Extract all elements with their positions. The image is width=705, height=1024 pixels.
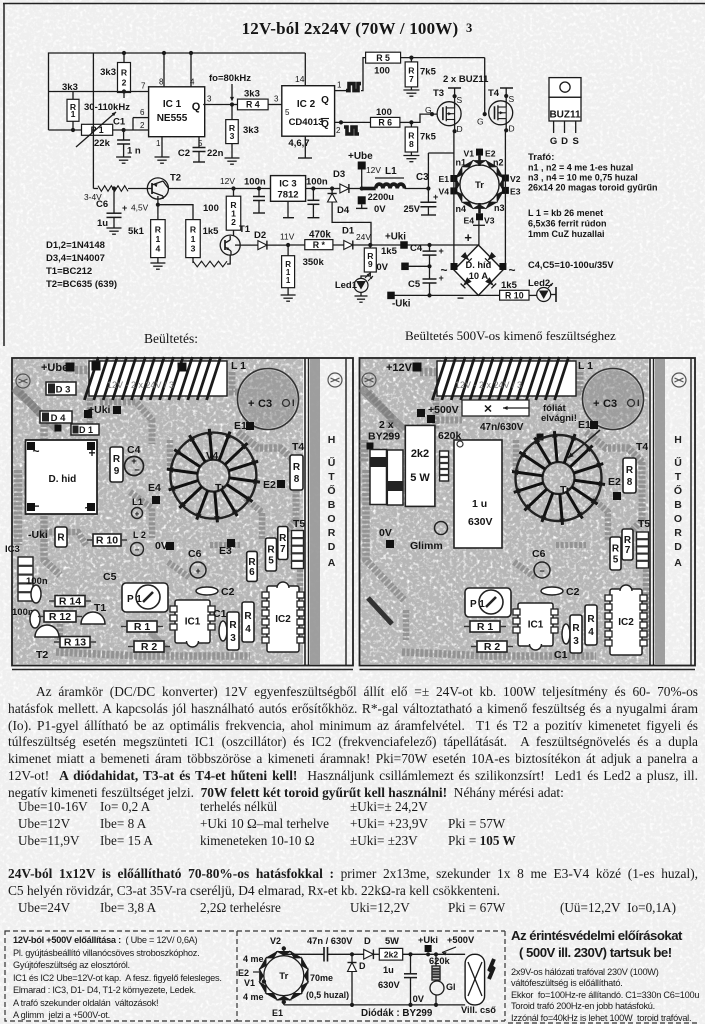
svg-text:100: 100 bbox=[376, 107, 392, 118]
capacitor C3 right board bbox=[583, 369, 644, 430]
resistor 2k2 5W right board bbox=[405, 425, 435, 506]
svg-text:5: 5 bbox=[268, 556, 274, 567]
svg-text:C4,C5=10-100u/35V: C4,C5=10-100u/35V bbox=[528, 260, 614, 270]
svg-text:Vill. cső: Vill. cső bbox=[461, 1005, 496, 1015]
svg-text:1: 1 bbox=[156, 139, 161, 148]
svg-text:IC3: IC3 bbox=[5, 544, 20, 555]
svg-text:2 x BUZ11: 2 x BUZ11 bbox=[443, 74, 489, 85]
svg-text:R 14: R 14 bbox=[59, 596, 81, 608]
svg-text:2: 2 bbox=[231, 217, 236, 227]
svg-text:R: R bbox=[293, 462, 301, 473]
capacitor 47n 630V small schematic bbox=[307, 936, 353, 962]
wire -Uki rail bbox=[387, 292, 499, 310]
svg-text:n1: n1 bbox=[455, 158, 466, 168]
capacitor C2 right board bbox=[541, 586, 580, 598]
wire top supply rail bbox=[49, 53, 306, 130]
capacitor C1 right board bbox=[554, 624, 570, 661]
transistor T1 bbox=[220, 224, 251, 255]
svg-text:−: − bbox=[134, 465, 140, 476]
svg-text:Q: Q bbox=[321, 95, 329, 106]
wire IC1 pin8 pin4 to rail bbox=[164, 53, 191, 87]
svg-text:R 6: R 6 bbox=[378, 118, 392, 128]
svg-text:IC 1: IC 1 bbox=[163, 99, 182, 110]
ground under R14 bbox=[150, 263, 165, 269]
svg-text:4 me: 4 me bbox=[243, 954, 264, 964]
svg-text:n3: n3 bbox=[494, 203, 505, 213]
svg-text:C1: C1 bbox=[113, 117, 126, 128]
svg-text:R: R bbox=[244, 611, 252, 622]
svg-text:7: 7 bbox=[141, 82, 146, 91]
svg-text:L 2: L 2 bbox=[133, 530, 146, 540]
svg-text:30-110kHz: 30-110kHz bbox=[84, 102, 130, 113]
svg-text:8: 8 bbox=[159, 78, 164, 87]
PCB left dark corner trace bbox=[14, 388, 170, 652]
node +12V pads right board bbox=[367, 361, 544, 450]
svg-text:12V: 12V bbox=[220, 176, 235, 186]
wire T4 drain to bridge right bbox=[504, 130, 506, 266]
wire IC1 pin3 output bbox=[203, 95, 237, 107]
svg-text:1k5: 1k5 bbox=[381, 246, 398, 257]
svg-text:9: 9 bbox=[368, 259, 373, 269]
capacitor C6 1u bbox=[96, 186, 127, 229]
svg-text:D: D bbox=[359, 961, 366, 971]
node transformer terminals V1 E2 E1 V2 V4 E3 E4 V3 bbox=[438, 149, 520, 226]
svg-text:R 10: R 10 bbox=[96, 535, 118, 547]
svg-text:70me: 70me bbox=[310, 973, 333, 983]
svg-text:R: R bbox=[190, 224, 197, 234]
capacitor C5 bbox=[408, 273, 444, 295]
wire 12V rail with hand squiggle bbox=[84, 186, 147, 202]
svg-text:47n / 630V: 47n / 630V bbox=[307, 936, 353, 946]
svg-text:R: R bbox=[572, 623, 580, 634]
node E2 pad near T4 left board bbox=[0, 0, 1, 1]
svg-text:T5: T5 bbox=[293, 518, 305, 530]
svg-text:+500V: +500V bbox=[447, 935, 475, 945]
svg-text:0V: 0V bbox=[155, 540, 168, 552]
node 0V pad right board bbox=[379, 527, 394, 548]
svg-text:T: T bbox=[675, 471, 682, 483]
svg-text:4,6,7: 4,6,7 bbox=[288, 138, 309, 149]
svg-text:Ő: Ő bbox=[674, 484, 682, 497]
PCB left corner screws bbox=[16, 373, 342, 388]
lamp glimm small schematic bbox=[430, 980, 456, 1005]
svg-text:Q: Q bbox=[321, 119, 329, 130]
svg-text:12V - 2 x 24V / 3: 12V - 2 x 24V / 3 bbox=[107, 380, 174, 390]
wire feed to transformer column bbox=[426, 153, 454, 202]
svg-text:C4: C4 bbox=[127, 444, 141, 456]
svg-text:IC2: IC2 bbox=[618, 617, 634, 628]
svg-text:Beültetés:: Beültetés: bbox=[144, 331, 198, 346]
resistor R6 bbox=[371, 107, 400, 128]
resistor R3 bbox=[226, 105, 259, 159]
label Beultetes headings bbox=[144, 328, 616, 346]
svg-text:+: + bbox=[122, 203, 127, 213]
svg-text:Tr: Tr bbox=[560, 484, 570, 496]
svg-text:BUZ11: BUZ11 bbox=[549, 110, 581, 121]
svg-text:630V: 630V bbox=[378, 980, 401, 990]
svg-text:n2: n2 bbox=[493, 158, 504, 168]
svg-text:100n: 100n bbox=[306, 177, 328, 188]
svg-text:R 5: R 5 bbox=[376, 53, 390, 63]
svg-text:E1: E1 bbox=[234, 420, 247, 432]
svg-text:D 4: D 4 bbox=[51, 413, 67, 424]
svg-text:✕: ✕ bbox=[483, 404, 492, 416]
svg-text:7: 7 bbox=[625, 545, 631, 556]
svg-text:E1: E1 bbox=[272, 1008, 283, 1018]
node E1 E2 pads right board bbox=[578, 419, 621, 500]
svg-text:6,5x36 ferrit rúdon: 6,5x36 ferrit rúdon bbox=[528, 219, 607, 229]
svg-text:7: 7 bbox=[280, 544, 286, 555]
svg-text:D2: D2 bbox=[254, 230, 266, 241]
capacitor C3 left board bbox=[238, 369, 299, 430]
svg-text:6: 6 bbox=[249, 567, 255, 578]
capacitor C6 left board bbox=[188, 548, 206, 578]
resistor R13 left board bbox=[54, 637, 96, 649]
op-amp U1: timer IC1 NE555 bbox=[149, 78, 205, 149]
svg-text:C1: C1 bbox=[213, 608, 227, 620]
label 2 x BUZ11 bbox=[443, 74, 489, 85]
svg-text:G: G bbox=[477, 117, 484, 127]
svg-text:R: R bbox=[57, 533, 65, 544]
svg-text:R: R bbox=[328, 527, 336, 539]
svg-text:+: + bbox=[464, 230, 472, 245]
svg-text:3: 3 bbox=[230, 131, 235, 141]
svg-text:E1: E1 bbox=[578, 419, 591, 431]
svg-text:D4: D4 bbox=[337, 205, 350, 216]
svg-text:2200u: 2200u bbox=[368, 192, 395, 202]
ground under R3 bbox=[225, 158, 240, 164]
svg-text:2k2: 2k2 bbox=[384, 949, 398, 959]
svg-text:A: A bbox=[674, 557, 682, 569]
capacitor C6 right board bbox=[532, 548, 550, 578]
inductor L2 markers left board bbox=[131, 497, 146, 556]
transistor T1 left board bbox=[81, 602, 106, 624]
svg-text:L1: L1 bbox=[385, 166, 397, 177]
lightning symbol small schematic bbox=[489, 959, 494, 979]
resistor R10 bbox=[500, 280, 537, 300]
label C4 C5 data bbox=[528, 260, 614, 270]
svg-text:D3,4=1N4007: D3,4=1N4007 bbox=[46, 253, 105, 264]
resistor 2k2 5W small schematic bbox=[379, 936, 402, 960]
svg-text:CD4013: CD4013 bbox=[289, 117, 324, 128]
bottom boxes dashed borders bbox=[5, 931, 700, 1023]
svg-text:L 1 = kb 26 menet: L 1 = kb 26 menet bbox=[528, 208, 603, 218]
svg-text:12V-ból 2x24V (70W / 100W): 12V-ból 2x24V (70W / 100W) bbox=[242, 19, 459, 38]
svg-text:+: + bbox=[248, 398, 254, 410]
svg-text:Led2: Led2 bbox=[528, 278, 550, 289]
resistor R12 left board bbox=[38, 611, 82, 623]
svg-text:0V: 0V bbox=[376, 262, 388, 273]
svg-text:+: + bbox=[195, 566, 200, 576]
svg-text:R: R bbox=[113, 454, 121, 465]
resistor 620k small schematic bbox=[429, 954, 451, 980]
svg-text:Glimm: Glimm bbox=[410, 540, 443, 552]
svg-text:D: D bbox=[328, 541, 336, 553]
svg-text:7k5: 7k5 bbox=[420, 67, 437, 78]
svg-text:D: D bbox=[509, 124, 515, 134]
svg-text:1: 1 bbox=[156, 234, 161, 244]
node +Uki terminal small schematic bbox=[418, 935, 438, 952]
svg-text:3: 3 bbox=[207, 95, 212, 104]
svg-text:B: B bbox=[674, 499, 682, 511]
resistor R4 right board bbox=[585, 605, 597, 645]
svg-text:+: + bbox=[135, 510, 140, 519]
component IC2 DIP left board bbox=[262, 582, 304, 652]
svg-text:5: 5 bbox=[285, 108, 290, 117]
LED Led2 bbox=[528, 278, 556, 302]
svg-text:C2: C2 bbox=[221, 586, 235, 598]
resistor R5 left board bbox=[266, 538, 277, 571]
svg-text:T2: T2 bbox=[36, 649, 48, 661]
component IC1 DIP left board bbox=[170, 600, 215, 647]
capacitor 100n left of IC3 bbox=[244, 177, 266, 214]
svg-text:2 x: 2 x bbox=[379, 419, 394, 431]
measurement table bbox=[0, 0, 705, 1]
svg-text:E1: E1 bbox=[438, 174, 449, 184]
svg-text:3k3: 3k3 bbox=[244, 89, 260, 100]
svg-text:V4: V4 bbox=[206, 451, 219, 462]
svg-text:8: 8 bbox=[627, 477, 633, 488]
resistor R7 right board T5 bbox=[622, 518, 650, 568]
lamp Glimm right board bbox=[410, 522, 448, 553]
svg-text:4: 4 bbox=[245, 624, 251, 635]
svg-text:O: O bbox=[327, 513, 335, 525]
svg-text:T1=BC212: T1=BC212 bbox=[46, 266, 92, 277]
svg-text:C2: C2 bbox=[178, 148, 190, 159]
wire top row small schematic bbox=[284, 952, 465, 956]
svg-text:1k5: 1k5 bbox=[203, 226, 220, 237]
svg-text:0V: 0V bbox=[374, 204, 386, 215]
svg-text:10 A: 10 A bbox=[469, 271, 489, 281]
transistor T2 left board bbox=[35, 625, 59, 661]
svg-text:2k2: 2k2 bbox=[411, 448, 429, 460]
svg-text:+: + bbox=[593, 398, 599, 410]
svg-text:+Ube: +Ube bbox=[348, 151, 373, 162]
svg-text:D: D bbox=[457, 124, 463, 134]
diode D3 bbox=[330, 169, 364, 193]
svg-text:5k1: 5k1 bbox=[128, 226, 145, 237]
svg-text:S: S bbox=[509, 94, 515, 104]
op-amp U3: regulator IC3 7812 bbox=[271, 176, 333, 218]
svg-text:100: 100 bbox=[203, 203, 219, 214]
svg-text:3k3: 3k3 bbox=[62, 82, 78, 93]
resistor R2 right board bbox=[471, 641, 513, 653]
PCB layout right board bbox=[360, 358, 696, 670]
svg-text:V3: V3 bbox=[484, 216, 495, 226]
label +500V arrow small schematic bbox=[442, 935, 475, 956]
wire IC2 pin14 to rail bbox=[304, 53, 306, 86]
resistor R14 bbox=[128, 205, 165, 263]
svg-text:~: ~ bbox=[508, 263, 515, 277]
node +Uki pad left board bbox=[88, 404, 121, 416]
transistor T4 MOSFET bbox=[477, 88, 515, 134]
svg-text:Diódák : BY299: Diódák : BY299 bbox=[361, 1008, 433, 1019]
wire T3 drain to bridge left bbox=[453, 131, 455, 266]
resistor R8 bbox=[405, 122, 436, 155]
svg-text:fo=80kHz: fo=80kHz bbox=[209, 73, 251, 84]
heatsink bar left board bbox=[305, 358, 346, 666]
diodes 2x BY299 right board bbox=[368, 419, 403, 505]
capacitor 100n ovals left board bbox=[12, 576, 48, 628]
svg-text:IC1: IC1 bbox=[528, 620, 544, 631]
svg-text:R: R bbox=[155, 224, 162, 234]
svg-text:R: R bbox=[121, 68, 128, 78]
svg-text:G: G bbox=[550, 136, 557, 147]
svg-text:O: O bbox=[674, 513, 682, 525]
capacitor C2 left board bbox=[196, 586, 235, 598]
label semiconductor types bbox=[46, 240, 117, 290]
PCB right dark corner trace bbox=[361, 388, 404, 624]
resistor R13 bbox=[158, 205, 219, 263]
svg-text:D 1: D 1 bbox=[79, 425, 93, 435]
node rail junction dots bbox=[122, 51, 193, 55]
resistor R11 bbox=[282, 245, 325, 295]
svg-text:l: l bbox=[292, 398, 295, 408]
node +500V pad right board bbox=[417, 404, 459, 423]
svg-text:4,5V: 4,5V bbox=[131, 203, 149, 213]
diode D4 bbox=[328, 189, 372, 246]
svg-text:R 13: R 13 bbox=[64, 637, 86, 649]
svg-text:R 12: R 12 bbox=[49, 611, 71, 623]
svg-text:2: 2 bbox=[140, 121, 145, 130]
svg-text:0V: 0V bbox=[413, 994, 425, 1004]
heatsink bar right board bbox=[650, 358, 691, 666]
svg-text:-Uki: -Uki bbox=[392, 299, 411, 310]
svg-text:R: R bbox=[279, 533, 287, 544]
page border bbox=[3, 4, 705, 347]
resistor R8 left board bbox=[290, 441, 304, 490]
potentiometer P1 right board bbox=[465, 588, 511, 617]
svg-text:1: 1 bbox=[337, 81, 342, 90]
svg-text:3: 3 bbox=[274, 95, 279, 104]
svg-text:T3: T3 bbox=[433, 88, 444, 99]
svg-text:n1 , n2 = 4 me 1-es huzal: n1 , n2 = 4 me 1-es huzal bbox=[528, 163, 633, 173]
node 0V pad left board bbox=[155, 540, 174, 552]
svg-text:−: − bbox=[539, 566, 544, 576]
svg-text:IC1: IC1 bbox=[185, 617, 201, 628]
PCB left copper traces bbox=[18, 370, 300, 656]
svg-text:1 n: 1 n bbox=[127, 146, 141, 157]
svg-text:IC2: IC2 bbox=[275, 614, 291, 625]
svg-text:C1: C1 bbox=[554, 649, 568, 661]
svg-text:P 1: P 1 bbox=[127, 594, 142, 605]
svg-text:R: R bbox=[626, 465, 634, 476]
label foliat elvagni with cut mark bbox=[462, 400, 577, 424]
svg-text:D 3: D 3 bbox=[56, 385, 71, 396]
svg-text:C3: C3 bbox=[258, 398, 272, 410]
svg-text:IC 3: IC 3 bbox=[279, 179, 296, 190]
svg-text:NE555: NE555 bbox=[157, 113, 188, 124]
node +Ube pads left board bbox=[41, 362, 187, 432]
transformer Tr toroid bbox=[455, 156, 505, 214]
svg-text:R 2: R 2 bbox=[484, 641, 501, 653]
transistor T5 left board bbox=[292, 518, 306, 569]
svg-text:E2: E2 bbox=[263, 479, 276, 491]
capacitor C1 bbox=[113, 117, 141, 158]
svg-text:V1: V1 bbox=[244, 978, 255, 988]
resistor R4 left board bbox=[242, 602, 254, 642]
svg-text:C6: C6 bbox=[532, 548, 546, 560]
node bridge AC terminals bbox=[440, 263, 515, 305]
capacitor C4 left board bbox=[125, 444, 144, 476]
svg-text:E3: E3 bbox=[510, 187, 521, 197]
svg-text:A: A bbox=[328, 557, 336, 569]
svg-text:4: 4 bbox=[588, 627, 594, 638]
svg-text:R: R bbox=[267, 545, 275, 556]
svg-text:D. hid: D. hid bbox=[49, 474, 77, 485]
resistor R7 bbox=[405, 58, 436, 90]
svg-text:R: R bbox=[587, 614, 595, 625]
svg-text:E4: E4 bbox=[463, 216, 474, 226]
svg-text:2: 2 bbox=[122, 78, 127, 88]
svg-text:T1: T1 bbox=[239, 224, 251, 235]
svg-text:D: D bbox=[561, 136, 568, 147]
svg-text:E4: E4 bbox=[148, 482, 161, 494]
svg-text:3: 3 bbox=[573, 636, 579, 647]
svg-text:2: 2 bbox=[336, 126, 341, 135]
svg-text:3: 3 bbox=[191, 243, 196, 253]
resistor R10 left board bbox=[28, 527, 127, 547]
svg-text:26x14 20 magas toroid gyűrűn: 26x14 20 magas toroid gyűrűn bbox=[528, 183, 658, 193]
svg-text:0V: 0V bbox=[379, 527, 392, 539]
resistor R12 bbox=[203, 176, 241, 236]
svg-text:4: 4 bbox=[156, 243, 161, 253]
diode D small schematic bbox=[364, 936, 374, 959]
svg-text:T: T bbox=[328, 471, 335, 483]
svg-text:100: 100 bbox=[374, 66, 390, 77]
diode zener small schematic bbox=[348, 954, 367, 1005]
svg-text:12V: 12V bbox=[366, 165, 381, 175]
diode D4 left board bbox=[40, 411, 72, 424]
svg-text:C6: C6 bbox=[188, 548, 202, 560]
svg-text:P 1: P 1 bbox=[91, 125, 104, 135]
svg-text:R 1: R 1 bbox=[134, 621, 151, 633]
resistor R3 right board bbox=[570, 615, 582, 653]
wire transformer bottom to bridge plus bbox=[464, 220, 485, 245]
flash tube Vill cso small schematic bbox=[461, 954, 496, 1015]
bridge rectifier D.hid bbox=[454, 245, 503, 295]
paragraph 24V variant bbox=[8, 866, 698, 900]
svg-text:22n: 22n bbox=[207, 148, 224, 159]
capacitor C2 bbox=[178, 137, 224, 162]
svg-text:+Uki: +Uki bbox=[418, 935, 438, 945]
ground under C1 bbox=[116, 157, 131, 163]
svg-text:3k3: 3k3 bbox=[100, 67, 116, 78]
svg-text:100n: 100n bbox=[244, 177, 266, 188]
ground under IC2 bbox=[298, 136, 312, 158]
svg-text:14: 14 bbox=[295, 74, 305, 84]
bridge rectifier D.hid left board bbox=[26, 440, 98, 515]
svg-text:R 4: R 4 bbox=[246, 100, 260, 110]
ground IC1 pin1 bbox=[155, 137, 170, 164]
svg-text:T5: T5 bbox=[638, 518, 650, 530]
svg-text:9: 9 bbox=[114, 466, 120, 477]
svg-text:−: − bbox=[135, 546, 140, 555]
svg-text:+Ube: +Ube bbox=[41, 362, 68, 374]
node 0V output terminal bbox=[376, 262, 429, 273]
transformer Tr toroid right board bbox=[512, 430, 605, 525]
potentiometer P1 left board bbox=[122, 583, 168, 612]
svg-text:+Uki: +Uki bbox=[385, 232, 406, 243]
paragraph main description bbox=[8, 684, 698, 802]
svg-text:3: 3 bbox=[230, 633, 236, 644]
svg-text:+Uki: +Uki bbox=[88, 404, 111, 416]
wire IC2 Qbar output to R6 bbox=[335, 120, 371, 135]
svg-text:1 u: 1 u bbox=[472, 498, 487, 510]
diode D3 left board bbox=[46, 382, 76, 396]
svg-text:elvágni!: elvágni! bbox=[541, 413, 577, 424]
diode D2 bbox=[240, 230, 288, 250]
